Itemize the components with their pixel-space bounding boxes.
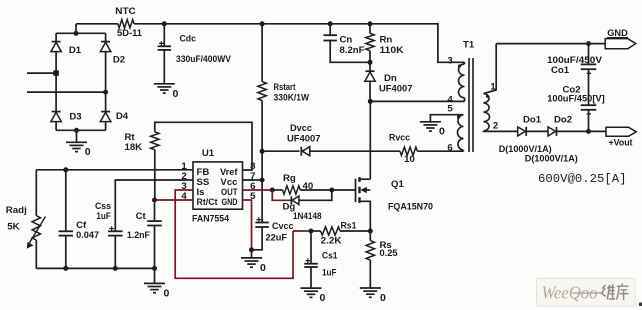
svg-text:+Vout: +Vout xyxy=(609,138,634,149)
svg-text:Cvcc: Cvcc xyxy=(272,221,294,232)
svg-text:5: 5 xyxy=(447,104,453,115)
svg-text:0: 0 xyxy=(439,126,445,138)
svg-text:Rs1: Rs1 xyxy=(341,221,358,232)
svg-text:U1: U1 xyxy=(202,148,215,159)
svg-text:5D-11: 5D-11 xyxy=(117,28,143,39)
svg-text:0: 0 xyxy=(320,292,326,304)
svg-text:Cs1: Cs1 xyxy=(322,250,338,261)
svg-text:Dn: Dn xyxy=(384,73,397,84)
svg-text:3: 3 xyxy=(447,55,452,66)
svg-text:18K: 18K xyxy=(125,142,143,153)
svg-text:FQA15N70: FQA15N70 xyxy=(388,202,433,213)
svg-text:0.047: 0.047 xyxy=(76,230,99,241)
svg-text:Rt/Ct: Rt/Ct xyxy=(197,197,219,208)
svg-text:D3: D3 xyxy=(69,111,81,122)
svg-text:GND: GND xyxy=(222,197,238,208)
svg-text:2: 2 xyxy=(493,121,498,132)
svg-text:Q1: Q1 xyxy=(391,179,404,190)
svg-text:0: 0 xyxy=(380,292,386,304)
svg-text:D2: D2 xyxy=(113,54,125,65)
svg-text:0.25: 0.25 xyxy=(380,248,399,259)
svg-text:100uF/450[V]: 100uF/450[V] xyxy=(547,94,605,105)
svg-text:UF4007: UF4007 xyxy=(287,133,321,144)
svg-text:Do1: Do1 xyxy=(523,115,542,126)
svg-text:0: 0 xyxy=(164,287,170,299)
svg-text:1N4148: 1N4148 xyxy=(293,211,322,222)
svg-text:0: 0 xyxy=(260,262,266,274)
svg-text:0: 0 xyxy=(85,146,91,158)
svg-text:0: 0 xyxy=(173,88,179,100)
svg-text:110K: 110K xyxy=(380,45,404,56)
svg-text:Radj: Radj xyxy=(6,205,27,216)
svg-text:Cdc: Cdc xyxy=(180,34,197,45)
svg-text:D4: D4 xyxy=(116,111,129,122)
svg-text:40: 40 xyxy=(303,181,314,192)
svg-text:10: 10 xyxy=(404,154,415,165)
svg-text:1uF: 1uF xyxy=(96,211,111,222)
svg-text:330uF/400WV: 330uF/400WV xyxy=(176,54,232,65)
svg-text:600V@0.25[A]: 600V@0.25[A] xyxy=(538,172,627,186)
svg-text:D(1000V/1A): D(1000V/1A) xyxy=(525,154,578,165)
svg-text:Do2: Do2 xyxy=(554,115,572,126)
svg-text:1uF: 1uF xyxy=(322,267,337,278)
svg-text:Co1: Co1 xyxy=(551,65,570,76)
svg-text:NTC: NTC xyxy=(115,6,136,17)
svg-text:D1: D1 xyxy=(69,45,82,56)
svg-text:Rn: Rn xyxy=(380,34,393,45)
svg-text:5K: 5K xyxy=(7,222,19,233)
svg-text:Dvcc: Dvcc xyxy=(290,123,313,134)
svg-text:8.2nF: 8.2nF xyxy=(340,45,365,56)
svg-text:Rg: Rg xyxy=(283,173,296,184)
svg-text:330K/1W: 330K/1W xyxy=(274,92,310,103)
svg-text:Cn: Cn xyxy=(340,34,353,45)
svg-text:22uF: 22uF xyxy=(266,233,288,244)
svg-text:Rvcc: Rvcc xyxy=(389,133,411,144)
svg-text:FAN7554: FAN7554 xyxy=(192,214,230,225)
svg-text:2.2K: 2.2K xyxy=(321,236,342,247)
svg-text:1.2nF: 1.2nF xyxy=(127,230,150,241)
svg-text:UF4007: UF4007 xyxy=(379,84,413,95)
svg-text:T1: T1 xyxy=(463,40,475,51)
svg-text:Ct: Ct xyxy=(136,211,147,222)
